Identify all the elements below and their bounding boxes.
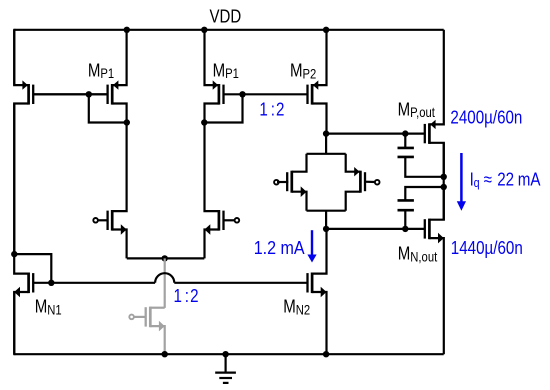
wire AB bottom stub — [325, 211, 327, 229]
svg-text:1: 1 — [259, 99, 267, 120]
label 1.2 mA — [254, 237, 305, 258]
node MP2 drain — [323, 130, 329, 136]
wire ground rail — [14, 353, 443, 355]
label MN2 — [283, 296, 310, 318]
wire MP2 drain to MPout gate — [326, 133, 425, 135]
transistor diff pair left — [99, 123, 127, 259]
node MP1 middle gate — [239, 91, 245, 97]
svg-text:2400µ/60n: 2400µ/60n — [450, 107, 522, 128]
label ratio 1:2 top — [259, 99, 284, 120]
capacitor C1 top stub — [404, 134, 406, 148]
node C2 at output — [441, 184, 447, 190]
label VDD — [210, 6, 242, 27]
svg-text:22: 22 — [497, 169, 514, 190]
svg-text:M: M — [398, 243, 411, 264]
svg-text:mA: mA — [518, 169, 541, 190]
transistor MN1 — [14, 254, 51, 354]
wire output rail — [443, 143, 445, 220]
svg-text::: : — [185, 286, 189, 307]
svg-text:q: q — [474, 175, 480, 190]
transistor tail current source (gray) — [134, 307, 164, 355]
label MP1 left — [88, 60, 114, 82]
transistor MN2 — [308, 229, 327, 354]
arrow Iq quiescent current — [457, 153, 466, 211]
wire AB box bottom — [307, 210, 346, 212]
wire gray tail drain — [164, 258, 166, 308]
terminal AB right gate — [375, 180, 380, 185]
wire MN1 drain to gate — [14, 254, 51, 283]
svg-text:1.2 mA: 1.2 mA — [254, 237, 305, 258]
svg-text:2: 2 — [190, 286, 198, 307]
node VDD tap MP1 middle — [201, 27, 207, 33]
wire tail — [127, 257, 205, 259]
wire VDD rail — [14, 29, 443, 31]
node VDD tap MP2 — [323, 27, 329, 33]
node VDD tap MP1 left — [124, 27, 130, 33]
transistor diff pair right — [205, 123, 235, 259]
node AB bottom — [323, 226, 329, 232]
wire AB bottom to MNout gate — [326, 228, 425, 230]
node MN1 gate — [48, 280, 54, 286]
label ratio 1:2 bottom — [174, 286, 199, 307]
wire AB top stub — [325, 134, 327, 154]
terminal tail bias (gray) — [129, 315, 134, 320]
label MN1 — [35, 296, 62, 318]
svg-text:M: M — [35, 296, 48, 317]
label 2400u/60n — [450, 107, 522, 128]
wire gate bus left mirror — [33, 93, 107, 95]
svg-text:M: M — [213, 60, 226, 81]
svg-text:P1: P1 — [100, 65, 114, 82]
transistor AB right PMOS — [346, 154, 365, 211]
wire left rail middle segment — [13, 104, 15, 255]
node tail source on ground rail — [162, 351, 168, 357]
terminal diff input left — [93, 218, 98, 223]
wire MP1 diode connection — [89, 94, 127, 122]
terminal AB left gate — [274, 180, 279, 185]
wire left rail lower segment — [13, 292, 15, 355]
svg-text:P,out: P,out — [410, 104, 435, 121]
wire left rail upper segment — [13, 29, 15, 85]
wire hop over tail line — [155, 273, 174, 283]
arrow 1.2 mA current — [307, 230, 316, 262]
capacitor C2 top stub — [405, 187, 443, 200]
svg-text:1440µ/60n: 1440µ/60n — [451, 238, 523, 259]
node MNout gate — [402, 226, 408, 232]
label MPout — [398, 99, 436, 121]
svg-text:VDD: VDD — [210, 6, 242, 27]
transistor MP1 middle — [205, 30, 243, 123]
transistor unlabeled left PMOS — [14, 30, 89, 254]
node MP1 drain — [124, 119, 130, 125]
svg-text:≈: ≈ — [484, 169, 492, 190]
svg-text:P1: P1 — [225, 65, 239, 82]
node MP1 middle drain — [201, 119, 207, 125]
wire MN1-MN2 gate bus left of hop — [51, 282, 155, 284]
transistor AB left NMOS — [287, 154, 306, 211]
svg-text::: : — [271, 99, 275, 120]
svg-text:N2: N2 — [296, 301, 310, 318]
label MNout — [398, 243, 438, 265]
capacitor C2 plates — [398, 200, 414, 210]
terminal diff input right — [235, 218, 240, 223]
wire AB left gate lead — [277, 181, 288, 183]
svg-text:P2: P2 — [302, 65, 316, 82]
svg-text:2: 2 — [276, 99, 284, 120]
node MPout gate — [402, 130, 408, 136]
node gate of left mirror — [86, 91, 92, 97]
node tail — [162, 255, 168, 261]
capacitor C2 bottom stub — [404, 210, 406, 229]
wire AB right gate lead — [364, 181, 375, 184]
transistor MP1 left — [89, 30, 127, 123]
label Iq approx 22 mA — [470, 169, 542, 190]
svg-text:M: M — [283, 296, 296, 317]
node MN1 drain — [11, 251, 17, 257]
node MN2 source on ground rail — [323, 351, 329, 357]
node ground tap — [222, 351, 228, 357]
svg-text:M: M — [88, 60, 101, 81]
label 1440u/60n — [451, 238, 523, 259]
wire MN1-MN2 gate bus right of hop — [174, 282, 307, 284]
svg-text:M: M — [398, 99, 411, 120]
label MP2 — [290, 60, 316, 82]
wire MP1-MP2 gate bus — [243, 93, 308, 95]
svg-text:N,out: N,out — [410, 248, 437, 265]
svg-text:M: M — [290, 60, 303, 81]
svg-text:N1: N1 — [47, 301, 61, 318]
node C1 at output — [441, 174, 447, 180]
transistor MNout — [425, 187, 444, 354]
label MP1 middle — [213, 60, 239, 82]
wire MP1 middle diode connection — [204, 94, 242, 122]
capacitor C1 bottom stub — [405, 157, 443, 177]
svg-text:1: 1 — [174, 286, 182, 307]
ground symbol — [215, 354, 236, 383]
transistor MP2 — [308, 30, 327, 134]
wire AB box top — [307, 153, 346, 155]
transistor MPout — [425, 30, 444, 177]
capacitor C1 plates — [398, 148, 414, 157]
